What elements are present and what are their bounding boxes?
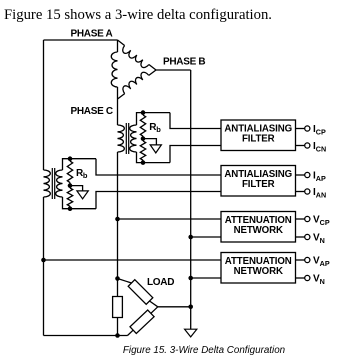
junction CT1 bottom node: [141, 160, 146, 165]
svg-text:PHASE A: PHASE A: [71, 29, 113, 40]
svg-text:VN: VN: [313, 233, 325, 245]
ground main (signal ground): [185, 329, 197, 337]
resistor Rb1 lower half: [140, 141, 145, 160]
svg-text:PHASE B: PHASE B: [163, 57, 205, 68]
pin U2 out IAN: [296, 191, 305, 193]
pin U3 out VCP: [296, 218, 305, 220]
wire CT1 secondary bottom lead: [137, 152, 171, 163]
junction CT2 center tap: [68, 183, 73, 188]
wire load lower diagonal leads: [128, 307, 158, 336]
svg-text:VAP: VAP: [313, 256, 330, 268]
wire Rb2 mid stub: [69, 183, 71, 188]
antialiasing filter U1: [221, 120, 296, 151]
wire CT2 bottom to antialiasing filter U2 in-: [96, 192, 221, 209]
wire phase C load bottom lead: [117, 318, 119, 336]
wire phase A left rail lower: [43, 197, 45, 336]
wire Rb2 center tap to ground: [70, 186, 83, 191]
wire load upper diagonal leads: [118, 279, 158, 307]
junction phase B / U4 VN tap: [188, 276, 193, 281]
transformer CT1 primary winding: [118, 125, 125, 152]
svg-text:NETWORK: NETWORK: [234, 266, 283, 277]
wire CT2 secondary top lead: [63, 159, 97, 170]
wire Rb1 top stub: [142, 113, 144, 115]
svg-text:PHASE C: PHASE C: [71, 106, 113, 117]
svg-text:IAN: IAN: [313, 187, 326, 199]
junction phase B / load: [188, 305, 193, 310]
wire bottom from phase A to load: [44, 335, 128, 337]
resistor load C-A (vertical): [113, 297, 123, 318]
delta winding bottom coil: [123, 72, 149, 93]
delta winding top (A-B) leads: [118, 40, 157, 70]
antialiasing filter U2: [221, 166, 296, 197]
resistor Rb1 upper half: [140, 115, 145, 136]
transformer CT1 core: [126, 123, 128, 154]
wire Rb2 bottom stub: [69, 206, 71, 208]
wire phase B from delta to rail: [156, 69, 191, 71]
wire Rb1 mid stub: [142, 136, 144, 141]
transformer CT2 secondary winding: [56, 170, 63, 197]
svg-text:FILTER: FILTER: [242, 134, 275, 145]
delta winding bottom (C-B) leads: [118, 70, 157, 99]
junction phase B / U3 VN tap: [188, 235, 193, 240]
svg-text:Rb: Rb: [76, 168, 88, 180]
delta winding top coil: [123, 46, 149, 68]
junction phase A / VAP tap: [41, 258, 46, 263]
transformer CT2 core: [52, 168, 54, 199]
ground CT1 (signal ground): [150, 145, 161, 153]
wire phase C from delta to CT1: [117, 99, 119, 125]
delta winding left coil: [111, 52, 117, 87]
resistor Rb2 upper half: [67, 161, 72, 183]
wire phase B to attenuation network U4 (VN): [191, 277, 221, 279]
junction CT2 top node: [68, 156, 73, 161]
resistor load C-B (upper diagonal): [128, 280, 153, 305]
figure caption: [35, 346, 338, 356]
svg-text:ICN: ICN: [313, 141, 326, 153]
pin U1 out ICP: [296, 128, 305, 130]
svg-text:IAP: IAP: [313, 171, 326, 183]
wire CT2 top to antialiasing filter U2 in+: [96, 159, 221, 175]
wire CT1 secondary top lead: [137, 113, 171, 125]
junction CT1 top node: [141, 110, 146, 115]
wire Rb1 center tap to ground: [143, 139, 156, 145]
svg-text:NETWORK: NETWORK: [234, 225, 283, 236]
junction phase C / load top: [115, 276, 120, 281]
pin U4 out VAP: [296, 259, 305, 261]
svg-text:FILTER: FILTER: [242, 179, 275, 190]
pin U2 out IAP: [296, 174, 305, 176]
wire phase B vertical rail: [190, 70, 192, 329]
pin U4 out VN: [296, 277, 305, 279]
wire phase B to attenuation network U3 (VN): [191, 236, 221, 238]
wire load junction to phase B: [158, 306, 191, 308]
wire phase A top horizontal: [44, 39, 118, 41]
svg-text:VCP: VCP: [313, 215, 330, 227]
svg-text:Rb: Rb: [149, 122, 161, 134]
svg-text:LOAD: LOAD: [147, 277, 174, 288]
svg-text:VN: VN: [313, 274, 325, 286]
attenuation network U3: [221, 212, 296, 243]
body text paragraph: [4, 8, 272, 23]
wire phase A left rail upper: [43, 40, 45, 170]
wire CT2 secondary bottom lead: [63, 197, 97, 209]
resistor load B-A (lower diagonal): [130, 310, 154, 334]
svg-text:ICP: ICP: [313, 124, 326, 136]
wire phase C below CT1: [117, 152, 119, 297]
wire CT1 bottom to antialiasing filter U1 in-: [170, 146, 221, 163]
wire Rb1 bottom stub: [142, 160, 144, 162]
attenuation network U4: [221, 253, 296, 284]
transformer CT1 secondary winding: [130, 125, 137, 152]
junction load bottom / phase A bottom wire: [115, 333, 120, 338]
wire phase C to attenuation network U3 (VCP): [118, 218, 222, 220]
pin U1 out ICN: [296, 145, 305, 147]
transformer CT2 primary winding: [44, 170, 51, 197]
wire phase A to attenuation network U4 (VAP): [44, 259, 222, 261]
ground CT2 (signal ground): [77, 191, 88, 199]
resistor Rb2 lower half: [67, 188, 72, 206]
pin U3 out VN: [296, 236, 305, 238]
junction CT1 center tap: [141, 136, 146, 141]
wire Rb2 top stub: [69, 159, 71, 161]
wire CT1 top to antialiasing filter U1 in+: [170, 113, 221, 129]
junction CT2 bottom node: [68, 206, 73, 211]
delta winding left (A-C) leads: [117, 40, 119, 99]
junction phase C / VCP tap: [115, 217, 120, 222]
